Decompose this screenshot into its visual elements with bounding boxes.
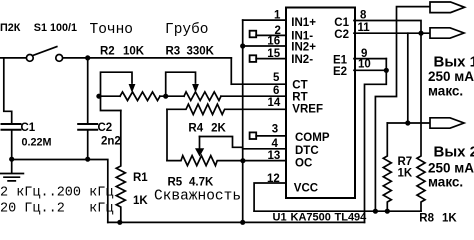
svg-text:14: 14 bbox=[268, 97, 281, 109]
svg-text:10: 10 bbox=[358, 59, 371, 71]
svg-text:8: 8 bbox=[360, 10, 367, 22]
svg-text:1K: 1K bbox=[398, 168, 413, 180]
svg-text:16: 16 bbox=[267, 36, 280, 48]
switch S1 contact circle right bbox=[56, 55, 63, 62]
svg-text:RT: RT bbox=[292, 91, 307, 103]
node R1 bottom bbox=[117, 220, 122, 225]
wire C2 top bbox=[87, 58, 89, 123]
wire Vyh2 line bbox=[387, 122, 430, 124]
wire pin9 E1 line bbox=[354, 58, 386, 60]
svg-text:IN1+: IN1+ bbox=[291, 17, 316, 29]
svg-text:DTC: DTC bbox=[295, 145, 319, 157]
node R2 R3 junction bbox=[163, 94, 168, 99]
wire bridge to arrow1 bbox=[375, 7, 430, 212]
wire R2 wiper rail bbox=[101, 72, 133, 96]
wire pin5 CT line bbox=[231, 83, 286, 85]
svg-text:10K: 10K bbox=[123, 45, 145, 57]
wire ground rail bbox=[12, 160, 108, 223]
svg-text:макс.: макс. bbox=[428, 175, 463, 190]
wire R4 R5 left side bbox=[166, 109, 168, 160]
capacitor C2 plates bbox=[78, 124, 97, 130]
node column bottom rail bbox=[240, 220, 245, 225]
node emitters E1 E2 bbox=[384, 68, 389, 73]
svg-text:Вых 2: Вых 2 bbox=[434, 144, 474, 161]
svg-text:макс.: макс. bbox=[428, 84, 463, 99]
switch S1 lever bbox=[33, 47, 57, 56]
resistor R2 potentiometer track bbox=[120, 92, 160, 101]
wire pin8 C1 line bbox=[354, 21, 421, 34]
node C1C2 tie bbox=[418, 31, 423, 36]
svg-text:E1: E1 bbox=[333, 55, 348, 67]
node Vyh2 tap bbox=[405, 120, 410, 125]
wire pin3 COMP line bbox=[256, 135, 286, 137]
svg-text:250 мА: 250 мА bbox=[428, 69, 474, 84]
wire R2R3 resistive line left bbox=[101, 95, 121, 97]
resistor R3 potentiometer track bbox=[184, 92, 221, 101]
resistor R1 bbox=[116, 111, 125, 223]
svg-text:U1: U1 bbox=[273, 212, 287, 224]
wire CT drop bbox=[230, 58, 232, 84]
svg-text:6: 6 bbox=[273, 85, 279, 97]
svg-text:COMP: COMP bbox=[295, 132, 330, 144]
svg-text:C2: C2 bbox=[334, 29, 349, 41]
svg-text:OC: OC bbox=[295, 157, 312, 169]
wire pin10 E2 line bbox=[354, 59, 386, 71]
svg-text:15: 15 bbox=[267, 48, 280, 60]
pin2 square terminal bbox=[250, 31, 257, 38]
R3 wiper arrowhead bbox=[192, 84, 199, 93]
wire C1C2 to Vyh2 bbox=[407, 33, 409, 123]
node C1 ground rail bbox=[9, 157, 14, 162]
wire R3 wiper rail bbox=[166, 72, 196, 96]
svg-text:IN2+: IN2+ bbox=[291, 41, 316, 53]
svg-text:4.7K: 4.7K bbox=[189, 177, 214, 189]
svg-text:3: 3 bbox=[272, 123, 278, 135]
wire switch to CT corner bbox=[63, 57, 232, 59]
svg-text:C2: C2 bbox=[98, 122, 113, 134]
svg-text:R3: R3 bbox=[166, 45, 181, 57]
wire C1 bottom bbox=[11, 131, 13, 160]
svg-text:1K: 1K bbox=[133, 195, 148, 207]
svg-text:250 мА: 250 мА bbox=[428, 161, 474, 176]
node column pin16 bbox=[240, 43, 245, 48]
node R7 bottom bbox=[385, 209, 390, 214]
svg-text:IN2-: IN2- bbox=[291, 54, 313, 66]
svg-text:R8: R8 bbox=[419, 213, 434, 225]
svg-text:Скважность: Скважность bbox=[154, 189, 241, 205]
svg-text:TL494: TL494 bbox=[335, 212, 368, 224]
svg-text:Вых 1: Вых 1 bbox=[434, 54, 474, 71]
svg-text:CT: CT bbox=[292, 79, 307, 91]
node C2 ground rail bbox=[85, 157, 90, 162]
svg-text:E2: E2 bbox=[333, 66, 347, 78]
wire pin1 line bbox=[243, 19, 286, 21]
resistor R8 bbox=[417, 33, 425, 211]
resistor R4 bbox=[167, 104, 286, 114]
svg-text:0.22M: 0.22M bbox=[22, 137, 52, 149]
wire C2 bottom bbox=[87, 131, 89, 160]
wire R3 right to RT bbox=[221, 95, 286, 97]
output arrow 1 bbox=[430, 2, 465, 13]
output arrow 2 bbox=[430, 28, 464, 38]
resistor R5 potentiometer track and OC line bbox=[167, 156, 286, 166]
svg-text:1K: 1K bbox=[442, 213, 457, 225]
pin3 square terminal bbox=[250, 132, 257, 139]
svg-text:C1: C1 bbox=[21, 122, 36, 134]
R2 wiper arrowhead bbox=[129, 84, 136, 93]
wire R2 lower jog bbox=[101, 96, 121, 110]
svg-text:4: 4 bbox=[272, 138, 279, 150]
svg-text:KA7500: KA7500 bbox=[291, 212, 331, 224]
svg-text:П2К: П2К bbox=[0, 22, 21, 34]
wire pin15 line bbox=[256, 58, 286, 60]
svg-text:2n2: 2n2 bbox=[101, 136, 121, 148]
wire main left vertical column bbox=[242, 20, 244, 222]
svg-text:Грубо: Грубо bbox=[165, 21, 209, 38]
svg-text:S1 100/1: S1 100/1 bbox=[34, 22, 77, 34]
svg-text:330K: 330K bbox=[187, 45, 215, 57]
output arrow 3 bbox=[430, 118, 464, 128]
wire between R2 R3 bbox=[160, 95, 184, 97]
resistor R7 bbox=[383, 123, 391, 211]
node R2 left bbox=[96, 94, 101, 99]
wire R5 wiper stem bbox=[199, 137, 201, 149]
svg-text:5: 5 bbox=[273, 72, 280, 84]
wire emitters staircase bbox=[365, 70, 387, 222]
svg-text:13: 13 bbox=[268, 150, 281, 162]
wire pin12 VCC line bbox=[254, 183, 286, 211]
node switch-C2 junction bbox=[85, 55, 90, 60]
pin15 square terminal bbox=[250, 55, 257, 62]
wire pin4 DTC line bbox=[243, 148, 286, 150]
svg-text:R5: R5 bbox=[168, 177, 183, 189]
svg-text:C1: C1 bbox=[334, 17, 349, 29]
wire pin11 C2 line bbox=[354, 32, 430, 34]
svg-text:VCC: VCC bbox=[294, 183, 318, 195]
svg-text:11: 11 bbox=[358, 22, 371, 34]
wire bottom rail bbox=[108, 221, 365, 223]
wire pin16 line bbox=[243, 45, 286, 47]
svg-text:2 кГц..200 кГц: 2 кГц..200 кГц bbox=[0, 185, 113, 200]
ground symbol bbox=[0, 160, 23, 181]
svg-text:R2: R2 bbox=[100, 45, 115, 57]
wire VCC rail to R7 R8 bbox=[254, 210, 421, 212]
node bridge at VCC rail bbox=[373, 209, 378, 214]
wire left lead to switch bbox=[0, 57, 26, 59]
svg-text:2K: 2K bbox=[211, 122, 226, 134]
R5 wiper arrowhead bbox=[195, 148, 204, 156]
svg-text:VREF: VREF bbox=[292, 104, 323, 116]
wire left vertical to C1 bbox=[4, 58, 12, 123]
svg-text:1: 1 bbox=[274, 10, 281, 22]
svg-text:R4: R4 bbox=[188, 122, 203, 134]
svg-text:R7: R7 bbox=[398, 156, 413, 168]
wire pin2 line bbox=[256, 34, 286, 36]
IC box U1 bbox=[286, 8, 355, 199]
switch S1 contact circle left bbox=[26, 55, 33, 62]
node column R5 right bbox=[240, 158, 245, 163]
capacitor C1 plates bbox=[2, 124, 21, 130]
svg-text:20 Гц..2 кГц: 20 Гц..2 кГц bbox=[0, 201, 113, 216]
wire R5 wiper jog to DTC column bbox=[200, 137, 243, 148]
svg-text:R1: R1 bbox=[133, 172, 148, 184]
svg-text:Точно: Точно bbox=[90, 22, 134, 38]
svg-text:12: 12 bbox=[267, 173, 280, 185]
